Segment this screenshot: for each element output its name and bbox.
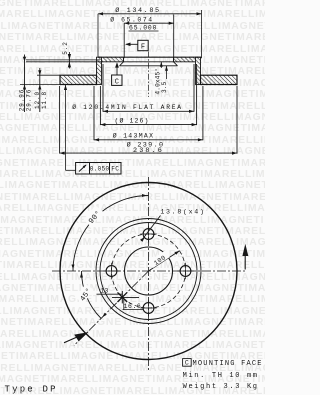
svg-text:(Ø 126): (Ø 126) xyxy=(114,117,149,125)
svg-text:Min. TH 10 mm: Min. TH 10 mm xyxy=(183,372,259,380)
svg-text:29.96: 29.96 xyxy=(19,89,26,112)
svg-text:Ø 120.4MIN FLAT AREA: Ø 120.4MIN FLAT AREA xyxy=(72,103,183,111)
svg-text:238.6: 238.6 xyxy=(133,147,164,155)
svg-text:29.76: 29.76 xyxy=(26,89,33,112)
svg-text:C: C xyxy=(185,360,189,367)
svg-text:Weight 3.3 Kg: Weight 3.3 Kg xyxy=(183,383,259,391)
svg-text:5.2: 5.2 xyxy=(62,41,69,55)
svg-text:FC: FC xyxy=(111,166,119,173)
svg-text:16.6: 16.6 xyxy=(124,303,142,310)
svg-text:Ø 65.074: Ø 65.074 xyxy=(110,16,153,24)
svg-text:F: F xyxy=(141,44,145,52)
svg-text:3.5: 3.5 xyxy=(161,81,168,93)
svg-text:Ø 143MAX: Ø 143MAX xyxy=(113,132,155,140)
svg-text:13: 13 xyxy=(100,288,108,295)
svg-text:11.8: 11.8 xyxy=(41,91,48,109)
svg-text:13.8(x4): 13.8(x4) xyxy=(160,209,205,216)
svg-text:12.0: 12.0 xyxy=(34,91,41,109)
svg-text:C: C xyxy=(115,78,119,86)
svg-text:65.000: 65.000 xyxy=(129,25,157,32)
svg-text:0.050: 0.050 xyxy=(90,166,110,173)
svg-text:Type DP: Type DP xyxy=(5,385,58,395)
svg-text:MOUNTING FACE: MOUNTING FACE xyxy=(193,360,263,368)
